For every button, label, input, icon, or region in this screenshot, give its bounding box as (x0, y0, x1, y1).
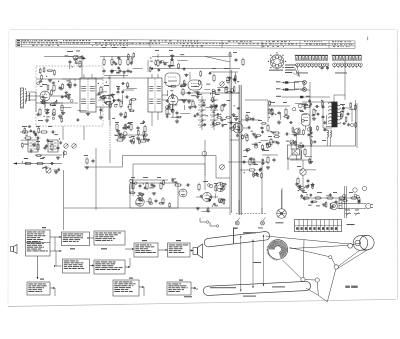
dial cord (266, 236, 349, 244)
wire (63, 152, 65, 158)
capacitor C127 (28, 125, 32, 128)
ground (152, 192, 156, 195)
dial cord (327, 269, 336, 302)
wire (132, 190, 134, 196)
capacitor C85 (117, 66, 120, 70)
capacitor C117 (342, 122, 346, 125)
value label (80, 55, 83, 58)
rectifier B1 (300, 169, 306, 175)
ground (301, 189, 305, 192)
wire (163, 62, 169, 64)
capacitor C130 (171, 179, 174, 183)
connector arrow (50, 287, 55, 289)
capacitor C131 (139, 199, 143, 202)
value label (252, 143, 255, 146)
resistor R54 (198, 183, 200, 192)
capacitor C80 (194, 114, 197, 118)
wire (177, 60, 187, 62)
wire (326, 137, 328, 146)
wire (213, 96, 215, 130)
header table frame (16, 39, 355, 48)
wire (172, 105, 174, 118)
capacitor C57 (77, 118, 80, 122)
wire (216, 177, 230, 179)
cord to capsule (306, 288, 318, 295)
capacitor C115 (324, 128, 327, 132)
coil L3 (327, 130, 328, 137)
capacitor C97 (216, 113, 220, 116)
switch contact (218, 199, 226, 203)
capacitor C132 (151, 183, 154, 187)
wire (44, 101, 46, 107)
ground (118, 132, 122, 135)
wire (69, 79, 71, 81)
capacitor C44 (44, 146, 47, 151)
resistor R100 (127, 53, 129, 59)
mains plug (366, 203, 373, 208)
resistor R110 (216, 117, 222, 119)
value label (206, 209, 209, 212)
resistor R23 (166, 108, 168, 117)
capacitor C32 (301, 145, 306, 148)
grommet (354, 194, 357, 197)
row marker B (17, 42, 20, 43)
capacitor C118 (342, 106, 345, 110)
wire (147, 60, 149, 72)
ground (196, 95, 200, 98)
connector arrow (139, 286, 144, 288)
resistor R138 (342, 107, 344, 113)
small node (183, 84, 186, 87)
small node (225, 87, 228, 90)
wire (135, 77, 148, 79)
capacitor C154 (255, 172, 258, 176)
capacitor C105 (265, 143, 269, 146)
resistor R47 (149, 197, 151, 205)
resistor R9 (111, 58, 113, 66)
small node (130, 179, 133, 182)
label (143, 176, 148, 179)
ground (40, 100, 44, 103)
wire (196, 196, 202, 198)
resistor R147 (207, 207, 209, 213)
mains switch (345, 213, 360, 216)
capacitor C62 (52, 82, 56, 85)
resistor R123 (269, 100, 271, 106)
value label (286, 140, 289, 143)
capacitor C149 (329, 193, 332, 197)
wire (230, 92, 239, 94)
value label (180, 53, 184, 56)
value label (115, 134, 118, 137)
dim 140mm bottom (272, 286, 285, 287)
value label (257, 175, 259, 178)
value label (323, 129, 327, 132)
capacitor C25 (278, 111, 281, 116)
capacitor C49 (36, 137, 41, 140)
block: IF alignment (62, 232, 90, 246)
value label (54, 169, 59, 172)
row marker C (17, 45, 20, 46)
resistor R32 (271, 108, 273, 117)
resistor R62 (24, 137, 33, 139)
block: output meter B1 (27, 282, 50, 295)
flow line (143, 287, 145, 296)
wire (122, 156, 124, 168)
resistor R34 (272, 132, 281, 134)
capacitor C114 (324, 121, 327, 125)
ground (182, 100, 186, 103)
wave switch indicator (202, 151, 207, 156)
value label (215, 93, 220, 96)
ground (266, 166, 270, 169)
capacitor C88 (158, 68, 161, 72)
potentiometer R59 (46, 168, 51, 173)
resistor R1 (53, 84, 55, 93)
small node (252, 162, 255, 165)
capacitor C47 (32, 131, 37, 134)
value label (46, 115, 49, 118)
capacitor C94 (212, 122, 215, 126)
connector arrow (158, 249, 168, 251)
flow line (54, 288, 56, 296)
label (131, 176, 135, 179)
wire (137, 194, 144, 196)
wire (157, 112, 159, 120)
ground (231, 113, 235, 116)
pulley (329, 256, 332, 259)
ground (184, 73, 188, 76)
down arrow (37, 256, 39, 279)
small node (37, 82, 40, 85)
lamp stem (263, 218, 266, 222)
label (157, 176, 161, 179)
resistor R69 (62, 83, 64, 90)
label (322, 139, 326, 142)
tube V11 (179, 189, 187, 197)
junction (210, 93, 211, 94)
label (180, 85, 185, 88)
junction (58, 81, 59, 82)
page bottom edge (8, 299, 396, 306)
resistor R64 (249, 158, 251, 167)
capacitor C82 (112, 61, 116, 64)
label GM (176, 240, 181, 241)
capacitor C72 (142, 120, 145, 124)
capacitor C69 (117, 87, 120, 91)
resistor R8 (103, 58, 105, 66)
resistor R154 (310, 139, 312, 145)
capacitor C65 (117, 98, 120, 102)
wire (78, 57, 82, 59)
value label (191, 94, 196, 97)
label C6 (101, 248, 107, 249)
wire (180, 112, 190, 114)
ground (122, 70, 126, 73)
junction (306, 194, 307, 195)
capacitor C107 (287, 116, 290, 120)
wire (77, 110, 86, 112)
junction (234, 105, 235, 106)
value label (106, 100, 109, 103)
resistor R161 (75, 58, 77, 64)
leader (252, 240, 254, 289)
lamp LA2 (261, 221, 265, 225)
resistor R136 (350, 102, 352, 108)
IF transformer S1 (80, 78, 96, 112)
wire (192, 99, 194, 102)
label N7 (129, 278, 133, 279)
small node (70, 99, 73, 102)
lamp stem (237, 218, 240, 222)
wire (180, 92, 240, 94)
legend notes (285, 65, 300, 77)
ground (116, 130, 120, 133)
resistor R125 (283, 116, 289, 118)
leader (240, 236, 242, 292)
wire (100, 56, 132, 58)
small node (145, 134, 148, 137)
capacitor C91 (159, 60, 162, 64)
junction (229, 127, 230, 128)
resistor R45 (338, 197, 346, 199)
ground (99, 115, 103, 119)
pot volume (218, 198, 223, 203)
dial glass top (204, 232, 269, 247)
resistor R81 (99, 96, 105, 98)
value label (42, 156, 45, 159)
block: GM meter (168, 243, 191, 257)
wire (300, 89, 310, 91)
adjust screw (303, 81, 307, 85)
capacitor C8 (119, 69, 122, 74)
wire (68, 56, 73, 58)
value label (183, 83, 186, 86)
capacitor C113 (316, 113, 320, 116)
ground (175, 119, 179, 123)
resistor R22 (182, 88, 184, 97)
wire (205, 57, 230, 63)
label (24, 157, 28, 160)
wire (261, 208, 263, 214)
capacitor C151 (82, 56, 85, 60)
value label (115, 103, 117, 106)
legend C1 id (276, 88, 281, 89)
label (355, 209, 359, 212)
resistor R58 (36, 162, 45, 164)
small node (230, 89, 234, 93)
wire (151, 69, 153, 71)
ground (196, 207, 200, 210)
resistor R27 (225, 86, 227, 95)
resistor R142 (38, 127, 40, 134)
capacitor C128 (35, 133, 38, 137)
capacitor C74 (127, 125, 130, 129)
value label (316, 204, 320, 207)
pulley (301, 278, 305, 282)
capacitor C144 (309, 132, 313, 135)
resistor R66 (242, 58, 244, 67)
capacitor C96 (204, 123, 207, 127)
wire (74, 79, 76, 81)
small node (150, 202, 153, 205)
resistor R92 (138, 138, 140, 144)
junction (298, 190, 299, 191)
resistor R165 (253, 174, 260, 176)
small node (135, 182, 138, 185)
resistor R49 (132, 182, 134, 191)
capacitor C31 (347, 112, 350, 117)
connector strip P1 (295, 55, 328, 60)
junction (294, 143, 295, 144)
capacitor C141 (307, 134, 311, 137)
junction (56, 100, 57, 101)
resistor R35 (270, 138, 272, 147)
junction (108, 77, 109, 78)
ground (58, 114, 62, 118)
wire (127, 57, 129, 59)
resistor R21 (171, 59, 173, 67)
wire (81, 55, 83, 58)
wire (238, 85, 240, 215)
wire (302, 175, 304, 186)
ground (67, 96, 71, 99)
capacitor C37 (321, 66, 324, 71)
resistor R124 (292, 127, 294, 133)
output tube V7 (302, 114, 311, 131)
small node (231, 127, 235, 131)
value label (237, 80, 239, 83)
wire (35, 92, 37, 112)
value label (226, 79, 230, 82)
grommet (357, 198, 360, 201)
capacitor C24 (261, 126, 264, 131)
pot tone (220, 165, 225, 170)
capacitor C108 (271, 112, 275, 115)
wire (215, 90, 217, 94)
small node (212, 89, 215, 92)
wire (98, 99, 104, 101)
capacitor C129 (30, 149, 33, 153)
electrolytic C90 (294, 129, 299, 137)
wire (26, 95, 40, 97)
ground (110, 70, 114, 73)
value label (131, 135, 135, 138)
value label (150, 60, 153, 63)
wire (133, 163, 205, 165)
label (212, 67, 216, 70)
value label (43, 166, 47, 169)
leader (263, 235, 265, 286)
junction (61, 89, 62, 90)
tube V10 (202, 192, 211, 201)
label (340, 103, 345, 106)
connector arrow (190, 250, 193, 252)
wire (238, 200, 240, 214)
wire (29, 99, 37, 101)
label (36, 140, 40, 143)
wire (228, 161, 268, 163)
capacitor C55 (55, 100, 58, 104)
wire (91, 74, 93, 78)
capacitor C46 (50, 162, 55, 165)
wire (267, 100, 269, 122)
value label (206, 83, 210, 86)
wire (20, 131, 21, 133)
value label (213, 111, 215, 114)
ground (187, 99, 191, 103)
junction (53, 102, 54, 103)
wire (300, 145, 356, 147)
small node (209, 184, 212, 187)
resistor R103 (155, 60, 157, 66)
label (76, 50, 80, 53)
wire (95, 77, 135, 79)
capacitor C53 (235, 58, 238, 63)
label (300, 110, 304, 113)
wire (355, 100, 357, 146)
capacitor C67 (112, 99, 116, 102)
capacitor C59 (66, 83, 70, 86)
resistor R111 (215, 123, 221, 125)
label (317, 191, 322, 194)
capacitor C120 (58, 168, 61, 172)
capacitor C42 (186, 184, 191, 187)
capacitor C2 (46, 111, 49, 116)
capacitor C22 (252, 117, 255, 122)
value label (299, 109, 303, 112)
wire (279, 112, 281, 120)
junction (220, 183, 221, 184)
ground (309, 160, 313, 163)
potentiometer R6 (73, 55, 78, 60)
resistor R106 (233, 86, 235, 93)
label (197, 93, 202, 96)
wire (166, 90, 168, 96)
wire (194, 90, 200, 92)
capacitor C34 (311, 200, 314, 205)
ground (137, 197, 141, 200)
small node (131, 141, 134, 144)
wire (131, 180, 133, 188)
wire (231, 70, 233, 213)
junction (344, 203, 345, 204)
page number 1 (366, 37, 369, 41)
capacitor C71 (121, 90, 124, 94)
resistor R83 (110, 102, 112, 108)
capacitor C43 (221, 187, 224, 192)
output transformer T1 (329, 102, 341, 127)
resistor R16 (130, 123, 132, 132)
wire (24, 158, 28, 160)
resistor R131 (317, 125, 319, 131)
tube V3 (168, 95, 178, 105)
legend C0 id (276, 81, 281, 82)
capacitor C106 (294, 133, 297, 137)
trimmer C (220, 82, 225, 87)
capacitor C63 (61, 95, 64, 99)
wire (349, 109, 356, 111)
capacitor C39 (155, 199, 158, 204)
junction (72, 66, 73, 67)
value label (127, 85, 130, 88)
value label (149, 186, 153, 189)
wire (83, 126, 85, 140)
resistor R137 (355, 122, 357, 128)
resistor R134 (345, 116, 347, 122)
resistor R56 (51, 143, 53, 152)
resistor R76 (39, 68, 41, 74)
